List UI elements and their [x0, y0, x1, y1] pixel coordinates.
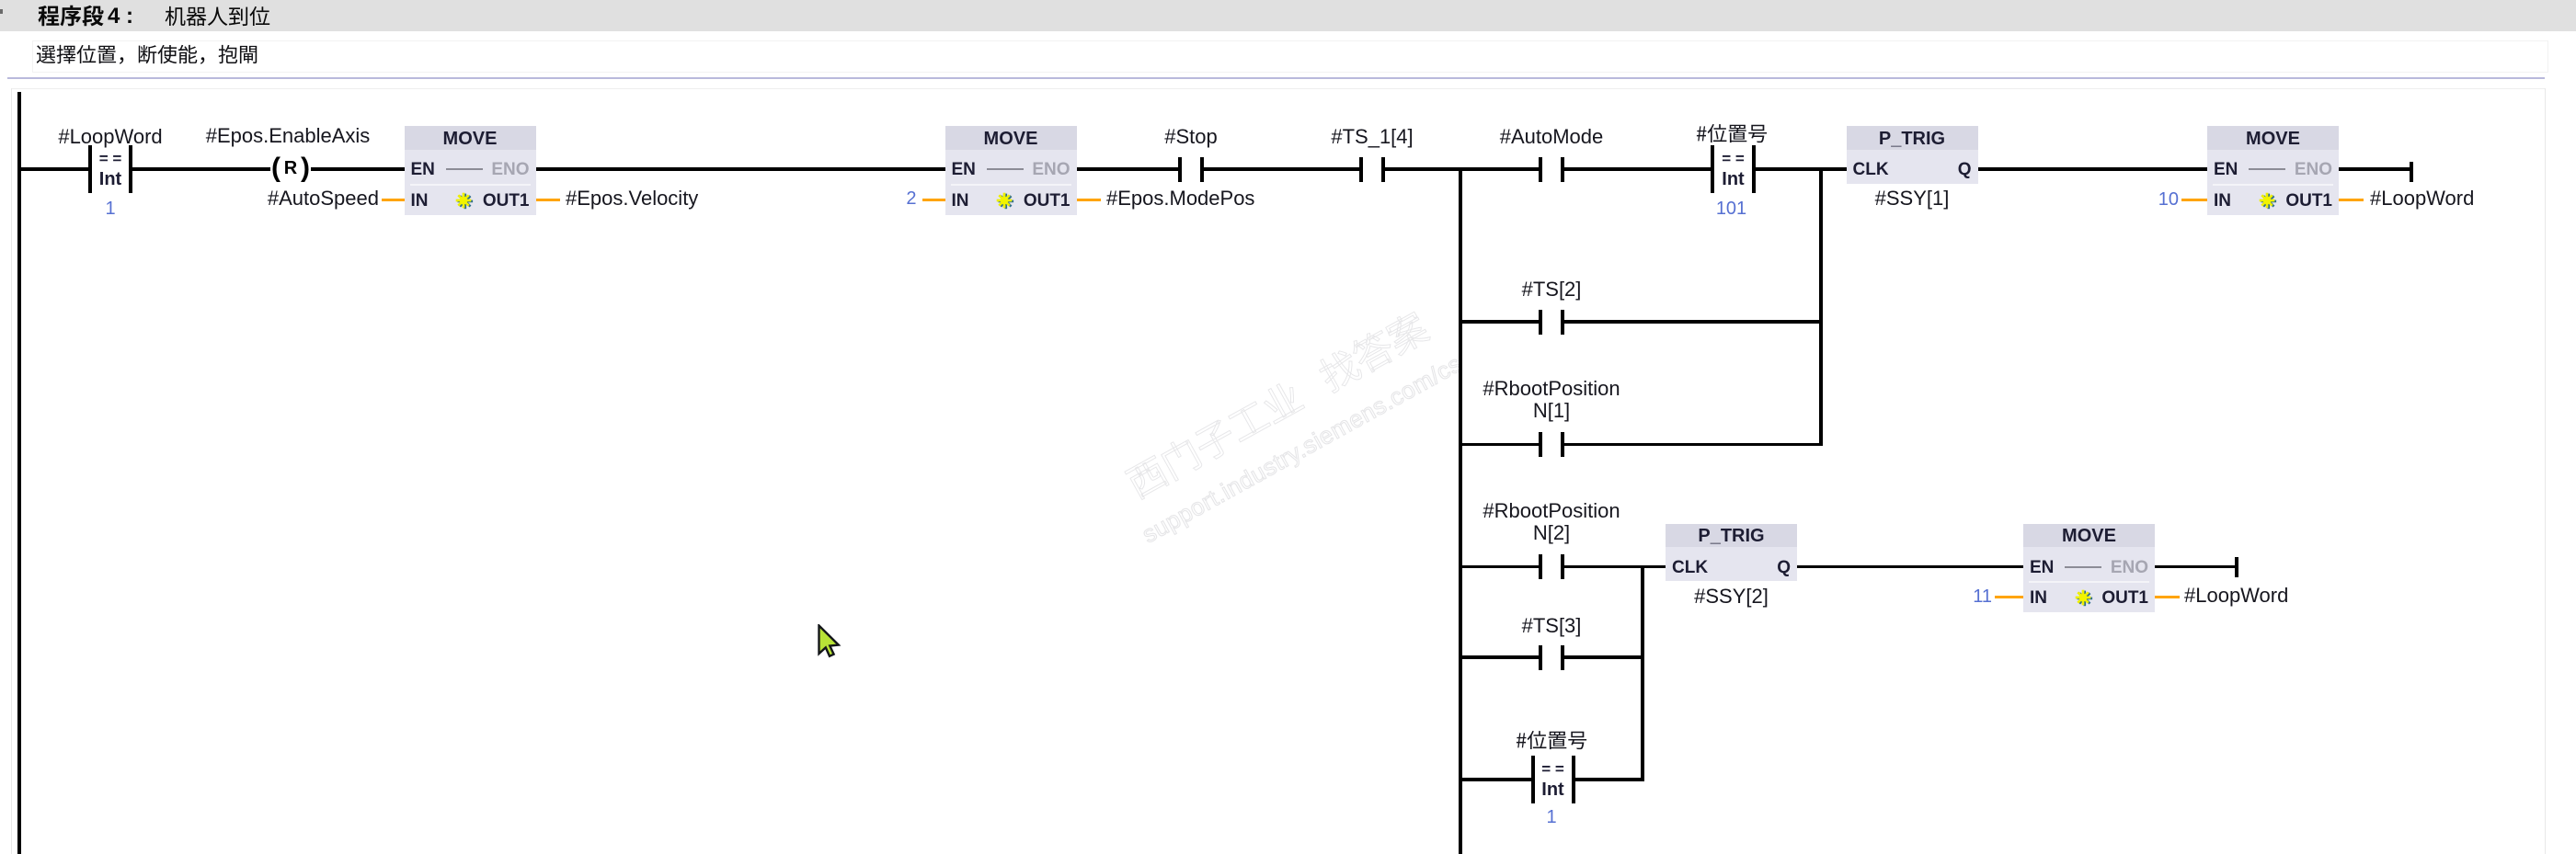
branch3 wire to merge rail — [1564, 443, 1821, 447]
constant 11 — [1440, 587, 1992, 606]
title text 程序段 — [38, 5, 104, 27]
edge trigger P_TRIG U5 — [1666, 524, 1797, 582]
comparator contact ==Int #LoopWord — [88, 145, 92, 193]
branch2 wire to merge rail — [1564, 320, 1821, 324]
comparator type Int — [1277, 780, 1829, 799]
operand label #Epos.EnableAxis — [12, 126, 564, 146]
title comment 机器人到位 — [165, 6, 270, 27]
network number 4 — [108, 6, 659, 28]
NO contact #TS[2] — [1539, 310, 1542, 335]
comparator operator == — [1277, 761, 1829, 777]
function block MOVE U6 — [2023, 524, 2155, 613]
operand label #AutoSpeed — [0, 188, 379, 209]
wire Q to MOVE3 EN — [1797, 565, 2023, 569]
operand label #TS[3] — [1276, 616, 1827, 636]
watermark — [1095, 292, 1497, 585]
NO contact #TS_1[4] — [1359, 157, 1363, 182]
operand label #TS_1[4] — [1096, 127, 1648, 147]
NO contact #RbootPositionN[1] — [1539, 432, 1542, 457]
NO contact #AutoMode — [1539, 157, 1542, 182]
branch6 wire — [1460, 778, 1531, 781]
operand label #SSY[1] — [1636, 188, 2188, 209]
NO contact #TS[3] — [1539, 645, 1542, 670]
network frame top — [11, 88, 2546, 90]
operand label line2 N[2] — [1276, 523, 1827, 543]
wire comparator to P_TRIG via right rail node — [1756, 167, 1847, 171]
orange wire #AutoSpeed to IN — [382, 199, 405, 202]
operand label #LoopWord — [0, 127, 386, 147]
branch end tick — [2235, 557, 2238, 577]
wire Q to MOVE4 EN — [1978, 167, 2208, 171]
edge trigger P_TRIG U3 — [1847, 126, 1978, 184]
wire comparator to coil R — [132, 167, 270, 171]
wire rail to comparator — [21, 167, 89, 171]
operand label #LoopWord output 2 — [2184, 586, 2576, 606]
function block MOVE U2 — [945, 126, 1077, 215]
NO contact #RbootPositionN[2] — [1539, 554, 1542, 579]
comment box frame — [32, 40, 2548, 73]
branch3 wire — [1460, 443, 1539, 447]
wire ENO to rung end — [2339, 167, 2410, 171]
orange wire OUT1 to #LoopWord — [2155, 596, 2180, 599]
operand label line2 N[1] — [1276, 401, 1827, 421]
comparand value 1 — [0, 199, 386, 218]
function block MOVE U1 — [405, 126, 536, 215]
wire ENO to branch end — [2155, 565, 2235, 569]
operand label #位置号 — [1696, 123, 1768, 143]
branch5 wire to rail2 — [1564, 655, 1643, 659]
network comment 选择位置 断使能 抱闸 — [36, 44, 258, 64]
orange wire OUT1 to #Epos.Velocity — [536, 199, 561, 202]
network title bar — [0, 0, 2576, 31]
wire — [1819, 167, 1823, 446]
wire #AutoMode to comparator — [1564, 167, 1712, 171]
wire — [1641, 565, 1644, 781]
collapse arrow sliver — [0, 9, 3, 14]
operand label #AutoMode — [1276, 127, 1827, 147]
network frame left — [11, 88, 13, 854]
reset coil (R) — [0, 154, 552, 182]
wire #Stop to #TS_1[4] — [1204, 167, 1359, 171]
separator line — [7, 77, 2545, 79]
rung end tick — [2410, 162, 2413, 182]
operand label #LoopWord output — [2370, 188, 2576, 209]
wire #TS_1[4] to #AutoMode via branch node — [1385, 167, 1539, 171]
orange wire OUT1 to #LoopWord — [2339, 199, 2364, 202]
branch4 wire to P_TRIG2 via rail2 node — [1564, 565, 1666, 569]
comparator type Int — [0, 170, 386, 188]
branch2 wire — [1460, 320, 1539, 324]
operand label #Stop — [915, 127, 1467, 147]
orange wire OUT1 to #Epos.ModePos — [1077, 199, 1102, 202]
comparand value 101 — [1456, 199, 2008, 218]
comparator contact ==Int #位置号 branch6 — [1531, 756, 1535, 803]
mouse cursor — [818, 624, 841, 659]
constant 10 — [1627, 190, 2179, 209]
wire coil to MOVE1 — [311, 167, 405, 171]
operand label #Epos.ModePos — [1106, 188, 1658, 209]
operand label #RbootPositionN[2] line1 — [1276, 501, 1827, 521]
wire — [1459, 167, 1462, 854]
comparand value 1 — [1276, 808, 1827, 826]
wire MOVE1 ENO to MOVE2 EN — [536, 167, 945, 171]
operand label #位置号 branch6 — [1516, 730, 1587, 750]
orange wire 10 to IN — [2181, 199, 2207, 202]
wire — [17, 92, 21, 854]
comparator contact ==Int #位置号 — [1711, 145, 1714, 193]
operand label #RbootPositionN[1] line1 — [1276, 379, 1827, 399]
branch5 wire — [1460, 655, 1539, 659]
function block MOVE U4 — [2207, 126, 2339, 215]
branch6 wire to rail2 — [1574, 778, 1643, 781]
orange wire 2 to IN — [922, 199, 945, 202]
comparator operator == — [0, 151, 386, 166]
orange wire 11 to IN — [1995, 596, 2023, 599]
branch4 wire — [1460, 565, 1539, 569]
constant 2 — [365, 189, 917, 208]
network frame right — [2545, 88, 2547, 854]
NO contact #Stop — [1178, 157, 1182, 182]
comparator operator == — [1458, 151, 2009, 166]
operand label #SSY[2] — [1456, 586, 2008, 607]
wire MOVE2 ENO to contact #Stop — [1077, 167, 1179, 171]
operand label #Epos.Velocity — [566, 188, 1117, 209]
comparator type Int — [1458, 170, 2009, 188]
operand label #TS[2] — [1276, 279, 1827, 300]
